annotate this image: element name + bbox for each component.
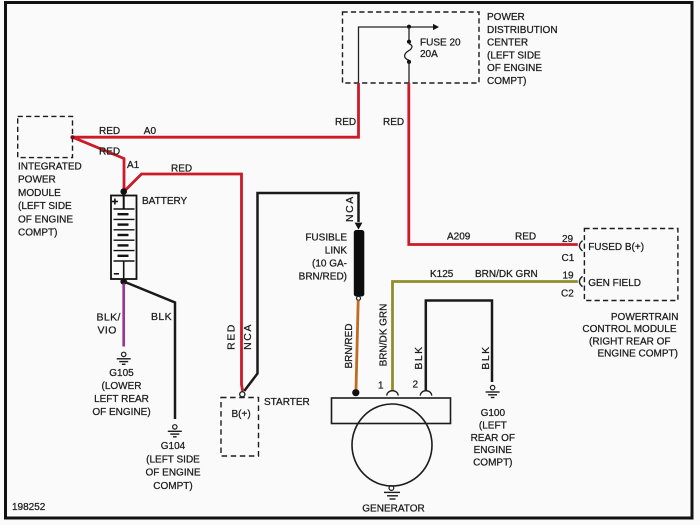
- svg-text:BRN/DK GRN: BRN/DK GRN: [379, 304, 390, 367]
- svg-text:C1: C1: [562, 253, 575, 264]
- ground G100: [486, 385, 500, 397]
- node junction dot PDC top: [407, 25, 411, 29]
- power distribution center label: [487, 12, 558, 87]
- svg-text:BRN/DK GRN: BRN/DK GRN: [475, 269, 538, 280]
- svg-text:NCA: NCA: [344, 195, 356, 222]
- svg-text:A0: A0: [144, 126, 157, 137]
- svg-text:FUSE 20: FUSE 20: [420, 37, 461, 48]
- svg-text:LINK: LINK: [325, 246, 348, 257]
- svg-text:OF ENGINE): OF ENGINE): [92, 407, 150, 418]
- ground G105: [117, 352, 131, 364]
- svg-text:BLK: BLK: [151, 311, 172, 323]
- svg-text:A1: A1: [127, 160, 140, 171]
- svg-text:1: 1: [378, 381, 384, 392]
- svg-text:G100: G100: [481, 408, 506, 419]
- svg-text:B(+): B(+): [232, 409, 251, 420]
- svg-text:OF ENGINE: OF ENGINE: [487, 63, 542, 74]
- arrowhead into fusible link: [355, 223, 363, 230]
- svg-text:OF ENGINE: OF ENGINE: [18, 214, 73, 225]
- wire fuse bottom lead: [408, 62, 410, 83]
- svg-text:POWERTRAIN: POWERTRAIN: [611, 312, 679, 323]
- starter box: [221, 398, 259, 457]
- generator body circle: [352, 404, 432, 486]
- label G104: [145, 441, 200, 492]
- svg-text:RED: RED: [226, 323, 238, 350]
- svg-text:C2: C2: [561, 289, 574, 300]
- svg-text:CENTER: CENTER: [487, 38, 528, 49]
- svg-text:GENERATOR: GENERATOR: [362, 504, 424, 515]
- power distribution center box: [343, 12, 480, 83]
- svg-text:K125: K125: [430, 269, 454, 280]
- svg-text:RED: RED: [335, 117, 356, 128]
- svg-text:FUSIBLE: FUSIBLE: [305, 233, 347, 244]
- svg-text:COMPT): COMPT): [473, 458, 512, 469]
- node fuse top terminal: [407, 40, 411, 44]
- wire PDC internal bus: [359, 27, 408, 83]
- wire RED PDC to PCM FUSED B(+): [409, 83, 578, 245]
- node battery positive terminal: [120, 188, 127, 195]
- wire BLK generator pin 2 to G100: [426, 301, 492, 392]
- svg-text:ENGINE COMPT): ENGINE COMPT): [597, 349, 678, 360]
- svg-text:2: 2: [413, 380, 419, 391]
- fuse value label: [420, 37, 461, 60]
- svg-text:198252: 198252: [12, 502, 46, 513]
- battery B1: [111, 196, 137, 280]
- svg-text:POWER: POWER: [487, 12, 525, 23]
- svg-text:20A: 20A: [420, 49, 438, 60]
- generator case ground: [384, 486, 400, 499]
- wire NCA starter to fusible link: [244, 193, 358, 391]
- label G100: [471, 408, 515, 469]
- wire RED A1 (IPM to battery positive): [73, 137, 125, 189]
- svg-text:MODULE: MODULE: [18, 188, 61, 199]
- svg-text:NCA: NCA: [242, 323, 254, 350]
- node IPM output: [71, 135, 75, 139]
- svg-text:CONTROL MODULE: CONTROL MODULE: [582, 324, 676, 335]
- svg-text:COMPT): COMPT): [153, 481, 192, 492]
- svg-text:RED: RED: [171, 164, 192, 175]
- fusible link bottom terminal: [357, 296, 361, 300]
- svg-text:G104: G104: [161, 441, 186, 452]
- svg-text:BLK/: BLK/: [97, 312, 121, 324]
- generator pin 2 socket: [420, 391, 431, 396]
- svg-text:BRN/RED): BRN/RED): [299, 272, 347, 283]
- label G105: [92, 368, 150, 418]
- svg-text:BLK: BLK: [413, 345, 425, 369]
- svg-text:(10 GA-: (10 GA-: [312, 259, 347, 270]
- wire fuse top lead: [408, 27, 410, 41]
- svg-text:COMPT): COMPT): [18, 228, 57, 239]
- integrated power module label: [18, 162, 82, 239]
- wire K125 BRN/DK GRN generator to PCM: [393, 282, 578, 392]
- generator connector block: [332, 398, 451, 424]
- label FUSIBLE LINK: [299, 233, 348, 283]
- svg-text:(LEFT: (LEFT: [479, 420, 507, 431]
- label powertrain control module: [582, 312, 678, 360]
- svg-text:BRN/RED: BRN/RED: [344, 323, 355, 368]
- svg-text:(LOWER: (LOWER: [102, 381, 142, 392]
- svg-text:VIO: VIO: [98, 325, 117, 337]
- svg-text:RED: RED: [99, 126, 120, 137]
- svg-text:FUSED B(+): FUSED B(+): [588, 242, 644, 253]
- svg-text:POWER: POWER: [18, 175, 56, 186]
- ground G104: [168, 425, 182, 437]
- svg-text:OF ENGINE: OF ENGINE: [145, 468, 200, 479]
- svg-text:A209: A209: [447, 232, 471, 243]
- node fuse bottom terminal: [407, 60, 411, 64]
- svg-text:DISTRIBUTION: DISTRIBUTION: [487, 25, 558, 36]
- PCM connector arc C2: [579, 276, 582, 286]
- wire PDC arrow feed: [410, 24, 439, 30]
- label BLK/VIO: [97, 312, 121, 337]
- fusible link component: [354, 230, 365, 297]
- svg-text:COMPT): COMPT): [487, 76, 526, 87]
- svg-text:REAR OF: REAR OF: [471, 433, 515, 444]
- svg-text:BATTERY: BATTERY: [142, 196, 188, 207]
- wire BRN/RED fusible link to generator: [356, 300, 358, 389]
- svg-text:BLK: BLK: [480, 345, 492, 369]
- wire RED battery to starter B(+): [124, 174, 243, 391]
- svg-text:(LEFT SIDE: (LEFT SIDE: [146, 454, 200, 465]
- wire BLK/VIO battery to G105: [122, 284, 125, 347]
- svg-text:29: 29: [562, 234, 574, 245]
- svg-text:(LEFT SIDE: (LEFT SIDE: [18, 201, 72, 212]
- integrated power module box: [18, 116, 73, 157]
- svg-text:RED: RED: [99, 147, 120, 158]
- powertrain control module box: [584, 229, 678, 301]
- svg-text:(LEFT SIDE: (LEFT SIDE: [487, 50, 541, 61]
- svg-text:STARTER: STARTER: [264, 397, 310, 408]
- starter terminal circle: [240, 392, 245, 397]
- node generator B+ stud: [352, 389, 359, 396]
- svg-text:19: 19: [563, 271, 575, 282]
- wire RED A0 (IPM to PDC): [73, 83, 359, 137]
- svg-text:LEFT REAR: LEFT REAR: [94, 394, 149, 405]
- generator pin 1 socket: [387, 391, 398, 396]
- PCM connector arc C1: [579, 241, 582, 251]
- wire BLK battery to G104: [124, 282, 175, 419]
- svg-text:GEN FIELD: GEN FIELD: [588, 278, 641, 289]
- svg-text:RED: RED: [515, 232, 536, 243]
- svg-text:INTEGRATED: INTEGRATED: [18, 162, 82, 173]
- fuse FUSE 20 20A element: [405, 44, 412, 61]
- svg-text:(RIGHT REAR OF: (RIGHT REAR OF: [589, 336, 670, 347]
- svg-text:G105: G105: [109, 368, 134, 379]
- svg-text:RED: RED: [383, 117, 404, 128]
- node battery negative terminal: [120, 278, 127, 285]
- svg-text:ENGINE: ENGINE: [474, 445, 513, 456]
